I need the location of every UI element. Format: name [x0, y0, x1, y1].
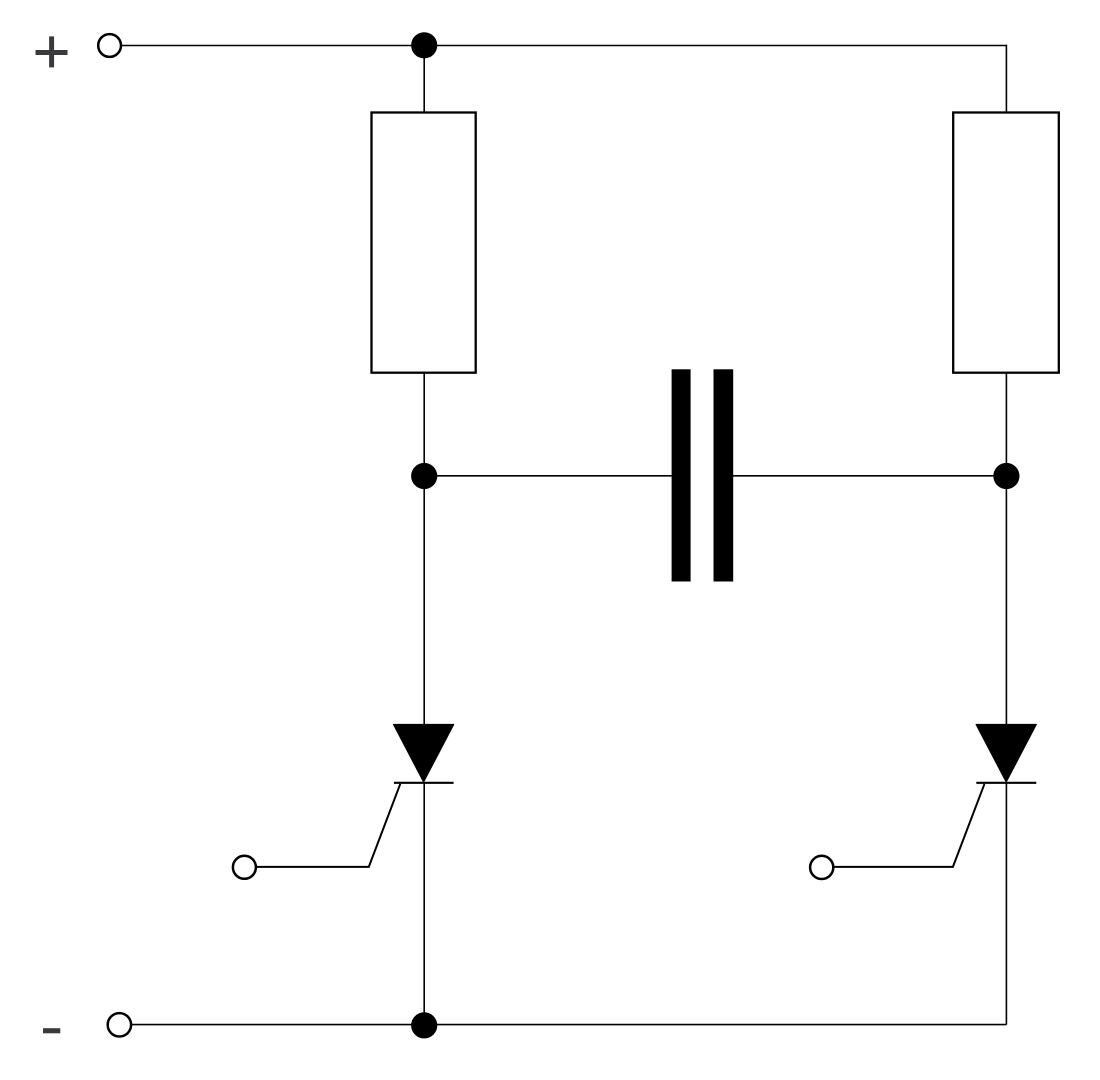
resistor R2	[953, 113, 1059, 373]
resistor R1	[372, 113, 476, 373]
wire SCR2 cathode to bottom-right corner	[1005, 783, 1007, 1025]
terminal G2 (gate open circle)	[810, 856, 833, 879]
terminal G1 (gate open circle)	[233, 856, 256, 879]
wire top rail right	[424, 45, 1006, 47]
wire node A to SCR1 anode	[423, 476, 425, 726]
capacitor C1 right plate	[714, 369, 734, 581]
wire node A to capacitor	[424, 475, 672, 477]
thyristor SCR2 gate lead	[834, 784, 984, 867]
wire node B to SCR2 anode	[1005, 476, 1007, 726]
thyristor SCR1 gate lead	[257, 784, 400, 867]
junction node top	[411, 32, 437, 58]
wire SCR1 cathode to bottom junction	[423, 783, 425, 1025]
terminal T- (open circle)	[108, 1013, 131, 1036]
wire top-right drop to R2	[1005, 45, 1007, 113]
minus label (-)	[43, 1028, 60, 1033]
wire capacitor to node B	[733, 475, 1006, 477]
capacitor C1 left plate	[672, 369, 691, 581]
wire R2 bottom to node B	[1005, 373, 1007, 476]
wire bottom rail right	[424, 1024, 1006, 1026]
wire junction to R1	[423, 46, 425, 114]
wire R1 bottom to node A	[423, 373, 425, 476]
wire bottom rail left	[132, 1024, 425, 1026]
wire top rail left	[122, 45, 425, 47]
node B (right mid junction)	[993, 463, 1019, 489]
thyristor SCR2 cathode bar	[976, 782, 1036, 784]
junction node bottom	[411, 1012, 437, 1038]
thyristor SCR1 triangle	[394, 725, 454, 782]
terminal T+ (open circle)	[98, 34, 121, 57]
plus label (+)	[36, 36, 68, 67]
node A (left mid junction)	[411, 463, 437, 489]
thyristor SCR2 triangle	[976, 725, 1036, 782]
thyristor SCR1 cathode bar	[394, 782, 454, 784]
